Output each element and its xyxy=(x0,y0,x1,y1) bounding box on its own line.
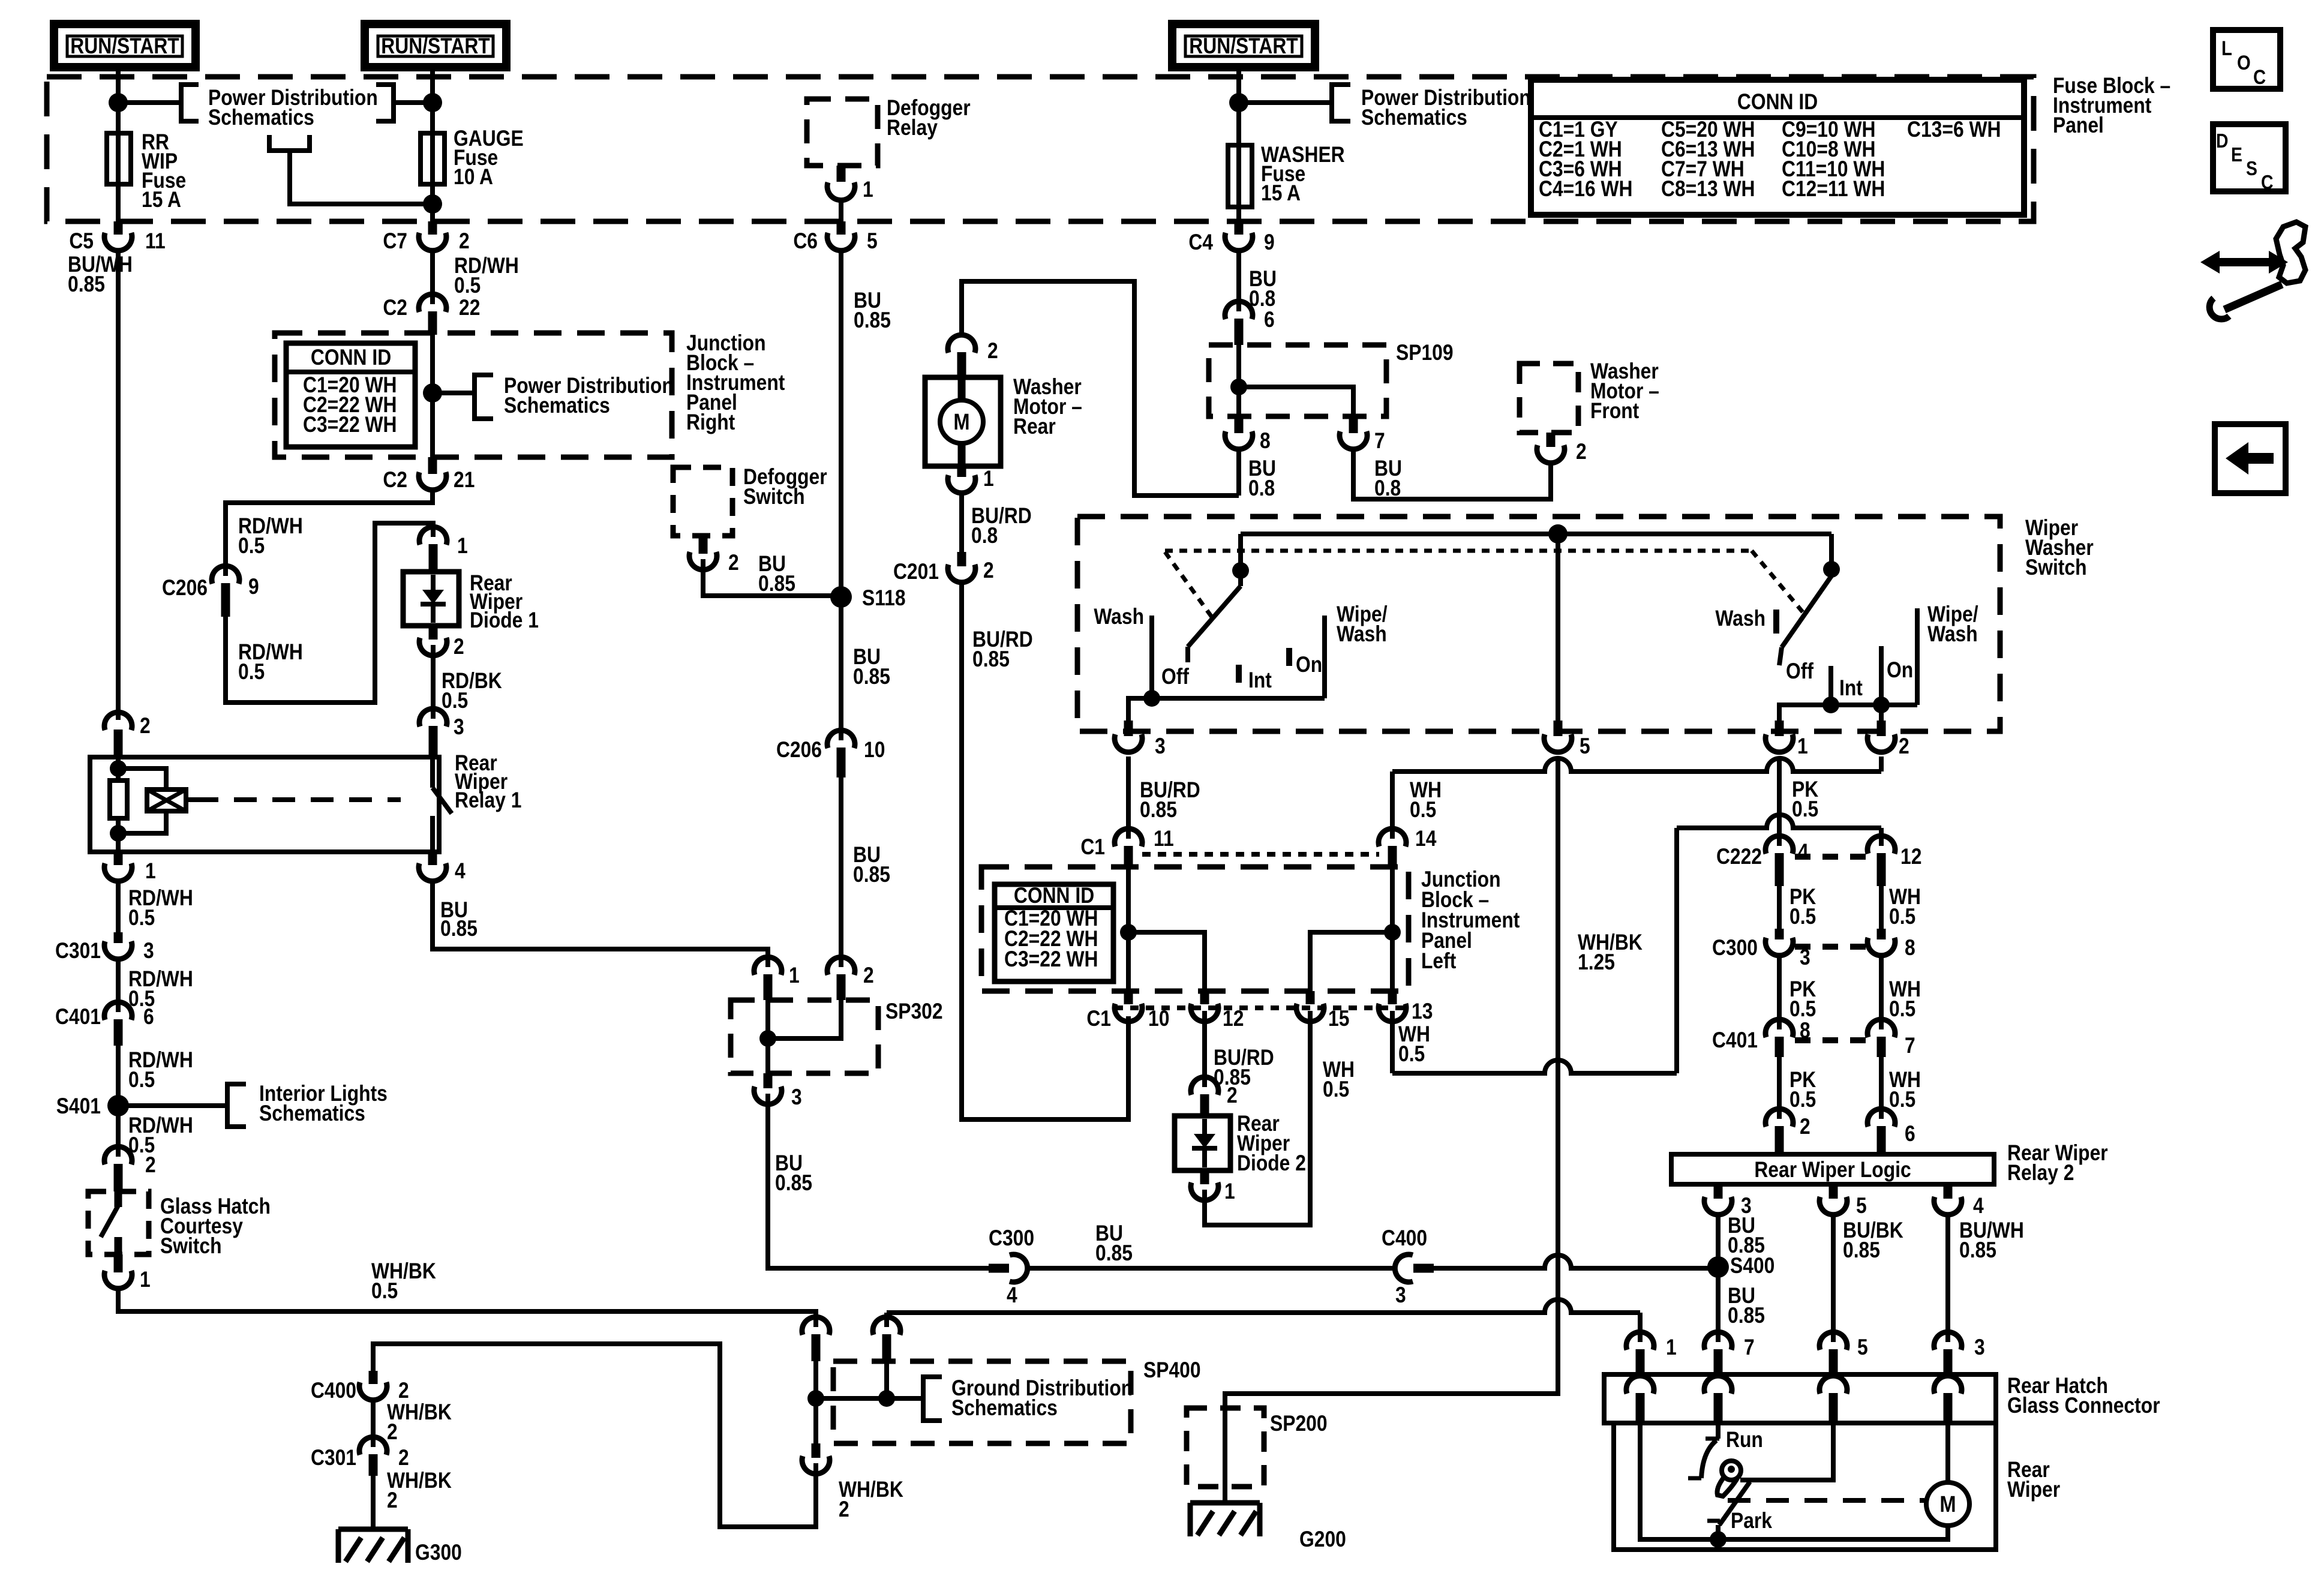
wire BU 0.8 SP109 pin 7 to washer motor front xyxy=(1353,451,1551,499)
svg-text:Off: Off xyxy=(1161,665,1189,689)
fuse GAUGE 10 A xyxy=(421,127,524,190)
svg-text:0.85: 0.85 xyxy=(1959,1238,1996,1263)
defogger switch pin 2 connector xyxy=(689,536,795,596)
svg-text:5: 5 xyxy=(1856,1194,1867,1218)
splice SP109 pin 6 connector xyxy=(1225,301,1275,345)
svg-text:Switch: Switch xyxy=(160,1234,222,1259)
connector C301 pin 3 xyxy=(55,932,154,963)
svg-text:2: 2 xyxy=(387,1488,398,1513)
Fuse Block - Instrument Panel dashed box xyxy=(47,74,2170,221)
wire WH 0.5 C401 to relay 2 pin 6 xyxy=(1881,1057,1921,1119)
junction inside junction block left pin 14 xyxy=(1384,924,1401,941)
svg-text:C: C xyxy=(2253,65,2266,89)
svg-text:C1: C1 xyxy=(1080,835,1105,860)
svg-text:C4=16 WH: C4=16 WH xyxy=(1539,177,1632,202)
junction left Wash contact xyxy=(1143,690,1160,707)
svg-text:10: 10 xyxy=(1148,1007,1169,1031)
junction inside SP400 right xyxy=(878,1390,895,1407)
connector C301 pin 2 xyxy=(311,1437,409,1476)
svg-text:5: 5 xyxy=(1857,1335,1868,1360)
svg-text:RUN/START: RUN/START xyxy=(381,34,490,59)
relay 2 pin 6 connector xyxy=(1867,1109,1915,1154)
wire BU 0.85 relay pin 4 to SP302 xyxy=(433,881,768,967)
svg-text:0.85: 0.85 xyxy=(758,572,795,596)
wiper switch linkage dotted line xyxy=(1165,551,1805,620)
svg-text:Diode 1: Diode 1 xyxy=(470,608,539,633)
splice SP109 pin 7 connector xyxy=(1340,416,1402,501)
svg-text:Int: Int xyxy=(1248,668,1272,693)
svg-text:C400: C400 xyxy=(311,1379,356,1403)
svg-text:0.5: 0.5 xyxy=(454,274,481,298)
CONN ID table of fuse block xyxy=(1531,80,2024,215)
svg-text:0.5: 0.5 xyxy=(1792,797,1818,822)
wire WH 0.5 diode 2 to pin 15 xyxy=(1205,1011,1355,1225)
splice SP302 pin 2 connector xyxy=(827,957,874,1000)
svg-text:Wash: Wash xyxy=(1337,622,1387,647)
rear hatch glass connector pin 7 xyxy=(1704,1332,1755,1374)
svg-text:C301: C301 xyxy=(311,1446,356,1470)
rear wiper box xyxy=(1614,1423,2060,1550)
svg-text:Right: Right xyxy=(686,410,735,435)
wiper washer switch common bus wire xyxy=(1241,532,1831,536)
washer motor rear pin 1 connector xyxy=(948,466,994,493)
svg-text:Schematics: Schematics xyxy=(259,1101,365,1126)
connector C222 pin 4 xyxy=(1716,836,1809,886)
svg-text:C8=13 WH: C8=13 WH xyxy=(1661,177,1755,202)
rear wiper diode 2 pin 2 connector xyxy=(1191,1077,1238,1116)
connector C5 pin 11 xyxy=(69,221,165,254)
junction block instrument panel left dashed box xyxy=(981,867,1520,991)
svg-text:0.5: 0.5 xyxy=(1889,905,1915,929)
wire RUN/START 2 to fuse block xyxy=(430,67,435,221)
svg-text:Park: Park xyxy=(1731,1509,1773,1533)
svg-text:2: 2 xyxy=(387,1420,398,1445)
wire BU/WH 0.85 relay 2 pin 4 to hatch pin 3 xyxy=(1948,1215,2024,1342)
svg-text:SP200: SP200 xyxy=(1270,1412,1328,1436)
rear hatch glass connector pin 3 xyxy=(1934,1332,1985,1374)
junction block left C1 pin 14 connector xyxy=(1379,827,1436,867)
svg-text:Glass Connector: Glass Connector xyxy=(2007,1394,2160,1418)
wire WH/BK 1.25 wiper pin 5 to SP200 xyxy=(1225,757,1643,1408)
wiper switch left Int tick xyxy=(1239,665,1272,693)
wire RD/WH 0.5 C7 to C2 xyxy=(433,251,519,304)
relay 1 pin 4 connector xyxy=(419,852,466,884)
connector C300 pin 3 xyxy=(1712,929,1810,970)
glass hatch courtesy switch pin 2 connector xyxy=(104,1146,156,1191)
relay 1 pin 2 connector xyxy=(104,712,151,757)
wiper switch pin 1 connector xyxy=(1765,721,1808,759)
svg-text:C7: C7 xyxy=(383,229,407,254)
splice SP400 left pin connector xyxy=(802,1317,830,1361)
svg-text:5: 5 xyxy=(867,229,878,254)
svg-text:Wash: Wash xyxy=(1094,605,1144,629)
svg-text:2: 2 xyxy=(398,1379,409,1403)
connector C4 pin 9 xyxy=(1188,221,1274,255)
back arrow box xyxy=(2215,424,2286,493)
rear wiper ground return wire xyxy=(1640,1423,1948,1539)
wire RD/WH 0.5 S401 to glass hatch switch xyxy=(118,1106,193,1158)
svg-text:G300: G300 xyxy=(415,1541,462,1565)
washer motor rear pin 2 connector xyxy=(948,335,998,377)
svg-text:0.5: 0.5 xyxy=(1323,1077,1349,1102)
svg-text:RUN/START: RUN/START xyxy=(70,34,179,59)
relay 1 resistor xyxy=(110,781,127,818)
svg-text:6: 6 xyxy=(1264,308,1275,332)
svg-text:Switch: Switch xyxy=(2025,556,2087,580)
wire WH 0.5 pin 13 to C222 pin 12 xyxy=(1392,815,1881,1073)
connector C401 pin 6 xyxy=(55,1002,154,1046)
connector C206 pin 10 xyxy=(776,730,885,778)
wire BU 0.8 C4 to SP109 xyxy=(1239,251,1277,311)
wire BU 0.85 S118 to C206-10 xyxy=(841,597,890,740)
svg-text:0.5: 0.5 xyxy=(1889,997,1915,1022)
svg-text:0.85: 0.85 xyxy=(854,308,891,333)
connector C401 pin 7 xyxy=(1867,1019,1915,1058)
washer motor front xyxy=(1520,359,1659,433)
svg-text:Wash: Wash xyxy=(1715,607,1765,631)
junction inside SP400 left xyxy=(807,1390,824,1407)
svg-text:Diode 2: Diode 2 xyxy=(1237,1151,1306,1176)
svg-text:C400: C400 xyxy=(1382,1226,1427,1251)
svg-text:4: 4 xyxy=(455,859,466,884)
connector C300 pin 8 xyxy=(1867,929,1915,960)
relay 2 pin 2 connector xyxy=(1765,1109,1810,1154)
wire PK 0.5 wiper pin 1 to C222 xyxy=(1779,757,1818,846)
junction wiper switch pin 5 tap xyxy=(1548,524,1568,544)
svg-text:8: 8 xyxy=(1905,936,1915,960)
wiper switch pin 3 connector xyxy=(1115,721,1166,759)
svg-text:S118: S118 xyxy=(862,586,906,611)
svg-text:Relay 2: Relay 2 xyxy=(2007,1161,2074,1185)
svg-text:1: 1 xyxy=(145,859,156,884)
relay 1 actuation dashed link xyxy=(196,797,401,802)
junction on RR WIP feed xyxy=(109,93,128,112)
rear wiper run/park switch xyxy=(1688,1423,1773,1539)
svg-text:CONN ID: CONN ID xyxy=(1737,90,1818,115)
svg-text:Schematics: Schematics xyxy=(1361,106,1467,130)
svg-text:6: 6 xyxy=(143,1005,154,1029)
glass hatch courtesy switch xyxy=(88,1191,271,1259)
svg-text:C6: C6 xyxy=(793,229,818,254)
svg-text:1: 1 xyxy=(1797,734,1808,759)
svg-text:0.5: 0.5 xyxy=(128,1068,155,1092)
wire BU 0.85 relay 2 pin 3 to S400 xyxy=(1718,1214,1765,1267)
wire washer motor rear pin 2 feed xyxy=(962,281,1239,496)
svg-text:0.5: 0.5 xyxy=(238,534,265,559)
svg-text:1: 1 xyxy=(863,178,873,202)
junction inside junction block left pin 11 xyxy=(1120,924,1137,941)
svg-text:On: On xyxy=(1296,653,1322,677)
junction below GAUGE fuse xyxy=(423,194,442,214)
svg-text:0.5: 0.5 xyxy=(128,906,155,930)
svg-text:0.8: 0.8 xyxy=(971,524,998,548)
svg-text:CONN ID: CONN ID xyxy=(311,346,391,370)
wiper switch right Int contact xyxy=(1831,666,1863,705)
svg-text:2: 2 xyxy=(1576,440,1587,464)
svg-text:C300: C300 xyxy=(1712,936,1758,960)
svg-text:21: 21 xyxy=(454,468,475,493)
wire BU 0.85 SP302 to C300 xyxy=(768,1094,989,1268)
svg-text:0.85: 0.85 xyxy=(853,665,890,689)
junction on GAUGE feed xyxy=(423,93,442,112)
wire defogger switch to S118 xyxy=(703,559,841,596)
svg-text:C4: C4 xyxy=(1188,230,1213,255)
junction block left internal wires xyxy=(1128,867,1392,991)
wiper switch right Wash label and tick xyxy=(1715,607,1776,634)
service icon car with arrow and wrench xyxy=(2200,222,2305,319)
svg-text:0.5: 0.5 xyxy=(371,1279,398,1304)
splice SP302 pin 1 connector xyxy=(754,957,800,1000)
rear wiper run output wire xyxy=(1740,1423,1833,1480)
wire PK 0.5 C401 to relay 2 pin 2 xyxy=(1779,1057,1816,1119)
wire BU 0.85 C206 to SP302 xyxy=(841,778,890,967)
svg-text:C12=11 WH: C12=11 WH xyxy=(1782,177,1885,202)
connector C7 pin 2 xyxy=(383,221,469,254)
svg-text:15 A: 15 A xyxy=(142,188,181,212)
svg-text:12: 12 xyxy=(1900,845,1921,869)
relay 1 pin 3 connector xyxy=(419,709,464,757)
svg-text:7: 7 xyxy=(1374,429,1385,454)
LOC legend box xyxy=(2213,30,2280,89)
svg-text:C3=22 WH: C3=22 WH xyxy=(303,413,397,437)
relay 1 coil xyxy=(147,789,196,811)
svg-text:G200: G200 xyxy=(1299,1527,1346,1552)
splice S118 xyxy=(830,586,906,611)
svg-text:10: 10 xyxy=(864,738,885,763)
wire WH/BK 2 SP400 to hatch pin 1 xyxy=(887,1299,1640,1342)
splice SP109 xyxy=(1209,341,1454,416)
svg-text:Front: Front xyxy=(1590,399,1640,424)
svg-text:15: 15 xyxy=(1328,1007,1349,1031)
svg-text:0.85: 0.85 xyxy=(68,272,105,297)
wire BU 0.8 SP109 pin 8 down xyxy=(1236,451,1241,496)
wiper switch right Off label xyxy=(1786,659,1813,684)
svg-text:8: 8 xyxy=(1260,429,1271,454)
svg-text:C206: C206 xyxy=(776,738,822,763)
svg-text:C222: C222 xyxy=(1716,845,1762,869)
svg-text:Schematics: Schematics xyxy=(951,1396,1058,1421)
svg-text:C5: C5 xyxy=(69,229,94,254)
wire RUN/START 1 to fuse block xyxy=(116,67,121,221)
wire BU 0.85 S400 run to C400 and C300 xyxy=(1027,1221,1718,1268)
splice SP400 right pin connector xyxy=(873,1317,900,1361)
svg-text:Relay 1: Relay 1 xyxy=(455,788,521,813)
svg-text:0.85: 0.85 xyxy=(775,1171,812,1196)
connector C400 pin 3 inline xyxy=(1382,1226,1434,1308)
wire RD/WH 0.5 C401 to S401 xyxy=(118,1046,193,1106)
wire BU/BK 0.85 relay 2 pin 5 to hatch pin 5 xyxy=(1833,1215,1903,1342)
svg-text:Wash: Wash xyxy=(1927,622,1978,647)
svg-text:0.5: 0.5 xyxy=(1398,1042,1425,1067)
svg-text:0.5: 0.5 xyxy=(1789,905,1816,929)
splice SP302 pin 3 connector xyxy=(754,1073,802,1110)
svg-text:S400: S400 xyxy=(1730,1254,1774,1278)
svg-text:3: 3 xyxy=(454,715,464,740)
junction block left C1 pin 15 connector xyxy=(1296,991,1349,1031)
svg-text:C3=22 WH: C3=22 WH xyxy=(1004,947,1098,972)
svg-text:4: 4 xyxy=(1798,840,1809,864)
svg-text:2: 2 xyxy=(454,635,464,659)
connector C206 pin 9 xyxy=(162,566,259,617)
wire WH/BK 0.5 to SP400 xyxy=(118,1259,816,1327)
svg-text:0.85: 0.85 xyxy=(1095,1241,1133,1266)
wire BU/RD 0.8 motor to C201 xyxy=(962,493,1032,552)
svg-text:2: 2 xyxy=(1227,1083,1238,1108)
wire WH 0.5 C300 to C401 xyxy=(1881,956,1921,1029)
junction right Int contact xyxy=(1822,697,1839,713)
rear wiper motor dashed link xyxy=(1728,1498,1924,1503)
svg-text:0.85: 0.85 xyxy=(972,647,1010,672)
rear wiper diode 1 xyxy=(403,571,539,633)
svg-text:0.5: 0.5 xyxy=(238,660,265,685)
svg-text:C2: C2 xyxy=(383,296,407,320)
wire BU/RD 0.85 C201 to junction block pin 10 xyxy=(962,583,1128,1119)
svg-text:SP400: SP400 xyxy=(1143,1358,1201,1383)
svg-text:C401: C401 xyxy=(55,1005,101,1029)
rear wiper motor M xyxy=(1926,1423,1969,1526)
svg-text:0.5: 0.5 xyxy=(1889,1088,1915,1112)
svg-text:2: 2 xyxy=(728,551,739,575)
svg-text:S401: S401 xyxy=(56,1094,101,1119)
svg-text:10 A: 10 A xyxy=(454,165,493,190)
ground G300 xyxy=(338,1529,462,1565)
relay 2 pin 5 connector xyxy=(1819,1184,1867,1218)
svg-text:1: 1 xyxy=(1224,1179,1235,1204)
wiper switch right On contact xyxy=(1881,646,1913,705)
svg-text:2: 2 xyxy=(140,714,151,739)
svg-text:C301: C301 xyxy=(55,939,101,963)
rear hatch glass connector pin 1 xyxy=(1626,1332,1677,1374)
wire WH/BK 2 C400 to C301 xyxy=(373,1400,452,1447)
relay 1 switch xyxy=(433,757,452,852)
defogger relay pin 1 connector xyxy=(827,166,873,221)
svg-text:3: 3 xyxy=(1395,1283,1406,1308)
wire BU 0.85 S400 to hatch pin 7 xyxy=(1718,1267,1765,1342)
junction block left C1 pin 13 connector xyxy=(1379,991,1433,1067)
defogger relay xyxy=(807,96,971,166)
svg-text:L: L xyxy=(2221,37,2232,60)
wiper switch pin 2 connector xyxy=(1867,705,1909,759)
svg-text:Rear: Rear xyxy=(1013,415,1056,439)
wire RD/WH 0.5 C2-21 to C206 xyxy=(226,490,433,576)
wire RD/WH 0.5 C301 to C401 xyxy=(118,959,193,1012)
svg-text:Int: Int xyxy=(1839,676,1863,701)
junction block left C1 top dotted row xyxy=(1142,852,1379,857)
wire BU/RD 0.85 wiper pin 3 to C1-11 xyxy=(1128,757,1200,851)
relay 1 junction top xyxy=(110,760,127,777)
reference bracket Power Distribution Schematics right xyxy=(1239,85,1531,130)
rear hatch glass connector pin 5 xyxy=(1819,1332,1868,1374)
wiper switch left Wipe/Wash contact xyxy=(1325,602,1388,698)
rear hatch glass connector inner cups xyxy=(1626,1376,1962,1423)
svg-text:0.85: 0.85 xyxy=(1728,1304,1765,1328)
svg-text:Left: Left xyxy=(1421,949,1457,974)
junction right On contact xyxy=(1873,697,1890,713)
DESC legend box xyxy=(2213,124,2286,194)
svg-text:2: 2 xyxy=(145,1153,156,1178)
svg-text:C13=6 WH: C13=6 WH xyxy=(1907,118,2001,142)
junction on WASHER feed xyxy=(1229,93,1248,112)
svg-text:15 A: 15 A xyxy=(1261,181,1301,206)
rear wiper relay 2 logic box xyxy=(1671,1141,2108,1185)
reference bracket Ground Distribution Schematics xyxy=(923,1376,1133,1421)
wiper washer switch dashed box xyxy=(1077,516,2094,731)
svg-text:22: 22 xyxy=(459,296,480,320)
svg-text:1: 1 xyxy=(1666,1335,1677,1360)
svg-text:14: 14 xyxy=(1415,827,1436,851)
wiper switch right blade xyxy=(1779,534,1831,665)
svg-text:0.85: 0.85 xyxy=(853,863,890,887)
svg-text:3: 3 xyxy=(1974,1335,1985,1360)
svg-text:2: 2 xyxy=(1899,734,1909,759)
relay 1 junction bottom xyxy=(110,825,127,842)
wiper switch left On tick xyxy=(1289,648,1322,677)
wire BU/WH 0.85 C5 to relay xyxy=(68,251,133,720)
svg-text:0.5: 0.5 xyxy=(1410,798,1436,822)
svg-text:Rear Wiper Logic: Rear Wiper Logic xyxy=(1754,1158,1911,1182)
svg-text:Wiper: Wiper xyxy=(2007,1478,2060,1502)
wire RUN/START 3 to fuse block xyxy=(1236,67,1241,221)
junction block left C1 bottom dotted row xyxy=(1115,1005,1406,1010)
wire RD/BK 0.5 diode 1 to relay pin 3 xyxy=(433,645,502,719)
svg-text:Off: Off xyxy=(1786,659,1813,684)
wire PK 0.5 C222 to C300 xyxy=(1779,885,1816,938)
svg-text:C1: C1 xyxy=(1086,1007,1111,1031)
svg-text:Switch: Switch xyxy=(743,485,805,509)
splice SP109 pin 8 connector xyxy=(1225,416,1276,501)
wiper switch right output wire xyxy=(1779,705,1917,721)
reference bracket Power Distribution Schematics jb right xyxy=(433,374,674,419)
rear wiper diode 2 xyxy=(1175,1112,1306,1176)
svg-text:9: 9 xyxy=(248,575,259,599)
junction block left C1 pin 11 connector xyxy=(1080,828,1142,867)
svg-text:2: 2 xyxy=(1800,1115,1810,1139)
washer motor rear xyxy=(925,375,1082,466)
svg-text:3: 3 xyxy=(1155,734,1166,759)
svg-text:M: M xyxy=(953,409,969,435)
relay 2 pin 3 connector xyxy=(1704,1184,1752,1218)
splice SP400 xyxy=(816,1358,1201,1443)
connector C222 dotted pair line xyxy=(1795,854,1866,860)
reference bracket Power Distribution Schematics left xyxy=(118,85,378,130)
connector C2 pin 21 xyxy=(383,457,475,493)
reference bracket Interior Lights Schematics xyxy=(118,1082,388,1127)
svg-text:D: D xyxy=(2216,130,2228,152)
svg-text:4: 4 xyxy=(1007,1283,1017,1308)
svg-text:S: S xyxy=(2246,157,2257,180)
power feed tag RUN/START 3 xyxy=(1172,24,1315,67)
wire WH 0.5 pin 14 to wiper pin 2 xyxy=(1392,757,1881,839)
rear hatch glass connector box xyxy=(1604,1374,2160,1423)
wiper switch left Off label xyxy=(1161,665,1189,689)
glass hatch courtesy switch pin 1 connector xyxy=(104,1254,151,1292)
defogger switch xyxy=(673,465,827,536)
junction right blade pivot xyxy=(1823,561,1840,578)
svg-text:C401: C401 xyxy=(1712,1028,1758,1053)
svg-text:0.5: 0.5 xyxy=(1789,997,1816,1022)
connector C300 pin 4 inline xyxy=(989,1226,1034,1308)
relay 2 pin 4 connector xyxy=(1934,1184,1984,1218)
rear wiper diode 1 pin 1 connector xyxy=(419,527,468,572)
wire PK 0.5 C300 to C401 xyxy=(1779,956,1816,1029)
wiper switch left Wash contact xyxy=(1094,605,1152,698)
connector C222 pin 12 xyxy=(1867,836,1921,886)
svg-text:0.5: 0.5 xyxy=(1789,1088,1816,1112)
svg-text:2: 2 xyxy=(459,229,470,254)
svg-text:SP109: SP109 xyxy=(1396,341,1454,365)
svg-text:Relay: Relay xyxy=(887,116,938,140)
wire BU 0.85 C6 to S118 xyxy=(841,251,891,597)
